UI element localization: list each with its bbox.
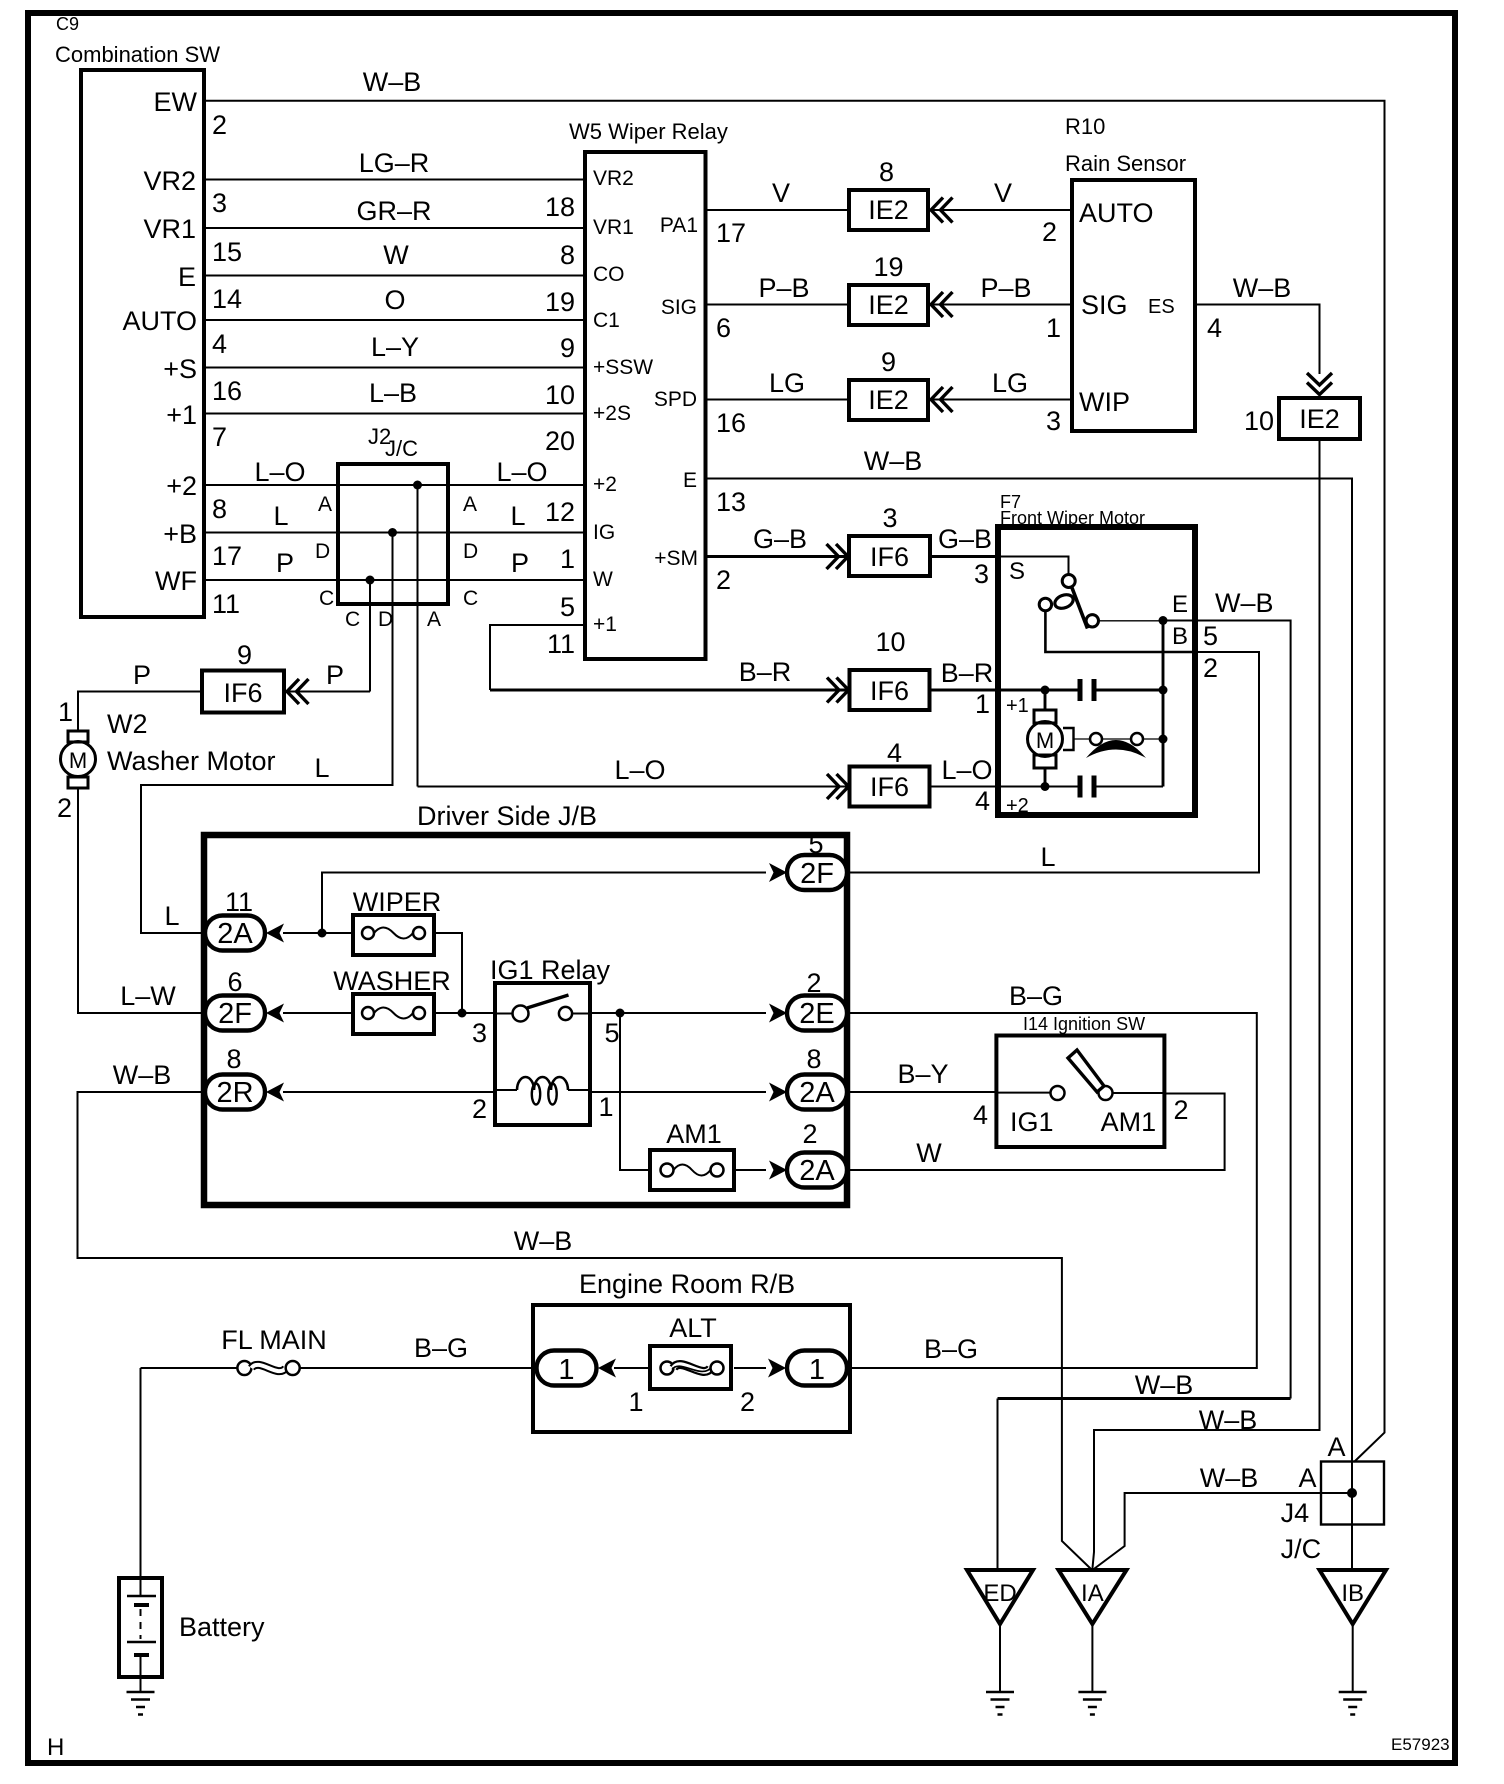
connector IE2 (9) [849, 347, 928, 420]
svg-text:IG1 Relay: IG1 Relay [490, 955, 611, 985]
wire P from J2-C to IF6(9) [284, 691, 370, 693]
svg-text:3: 3 [472, 1018, 487, 1048]
wire between brush contacts [1102, 738, 1131, 740]
brush contact circle right [1131, 733, 1143, 745]
wire +2 cap to E vertical [1094, 786, 1163, 788]
svg-text:SIG: SIG [661, 296, 697, 319]
node +2 motor junction [1041, 782, 1050, 791]
switch contact B-side (F7) [1086, 615, 1098, 627]
svg-text:E: E [178, 262, 196, 292]
ground triangle ED [967, 1570, 1033, 1624]
wire O AUTO-C1 [204, 319, 585, 321]
svg-text:W: W [916, 1138, 942, 1168]
svg-text:W–B: W–B [1215, 588, 1274, 618]
motor M (F7) [1028, 710, 1063, 768]
wire L-Y +S-+SSW [204, 367, 585, 369]
svg-text:1: 1 [598, 1092, 613, 1122]
svg-text:IE2: IE2 [1299, 404, 1340, 434]
svg-text:20: 20 [545, 426, 575, 456]
arrow into 1 (left) [598, 1359, 616, 1378]
relay W5 Wiper Relay [569, 119, 728, 659]
svg-text:D: D [315, 540, 330, 563]
motor F7 Front Wiper Motor [998, 492, 1195, 815]
svg-text:1: 1 [558, 1354, 574, 1386]
ground (ED) [986, 1692, 1014, 1715]
svg-text:W–B: W–B [113, 1060, 172, 1090]
wire L-B +1-+2S [204, 413, 585, 415]
svg-text:B–G: B–G [414, 1333, 468, 1363]
svg-text:W–B: W–B [1135, 1370, 1194, 1400]
svg-text:14: 14 [212, 284, 242, 314]
svg-text:18: 18 [545, 192, 575, 222]
capacitor +1 (F7) [1080, 679, 1094, 701]
svg-text:10: 10 [545, 380, 575, 410]
svg-text:V: V [994, 178, 1012, 208]
svg-text:9: 9 [237, 640, 252, 670]
svg-text:+1: +1 [593, 613, 617, 636]
svg-text:IE2: IE2 [868, 290, 909, 320]
wire LG SPD to IE2(9) [706, 399, 850, 401]
svg-text:E57923: E57923 [1391, 1735, 1450, 1754]
svg-text:10: 10 [1244, 406, 1274, 436]
chevron into IF6(9) [287, 679, 309, 704]
svg-text:C1: C1 [593, 309, 620, 332]
relay block Engine Room R/B [533, 1269, 850, 1432]
wire P-B SIG to IE2(19) [706, 304, 850, 306]
svg-text:+2S: +2S [593, 402, 631, 425]
connector 2F (5) [787, 829, 847, 890]
svg-text:A: A [463, 493, 477, 516]
svg-text:P–B: P–B [758, 273, 809, 303]
connector C9 Combination SW [55, 14, 220, 617]
chevron into IF6(3) [827, 544, 849, 569]
svg-text:2: 2 [802, 1119, 817, 1149]
fuse WASHER [333, 966, 451, 1034]
wire AM1 to 2A(2) [734, 1169, 766, 1171]
svg-text:+1: +1 [166, 400, 197, 430]
svg-text:W–B: W–B [1200, 1463, 1259, 1493]
wire W-B from EW to J4 (right side drop) [204, 101, 1385, 1462]
wire B-R W5 +1(11) to IF6(10) [490, 625, 585, 690]
svg-text:L: L [510, 501, 525, 531]
wire ALT to 1 (right) [734, 1367, 766, 1369]
fuse WIPER [353, 887, 442, 955]
svg-text:IF6: IF6 [870, 772, 909, 802]
fuse AM1 [650, 1119, 734, 1190]
svg-text:L–O: L–O [614, 755, 665, 785]
chevron into IE2(9) [931, 387, 953, 412]
svg-text:C9: C9 [56, 14, 79, 34]
wire 2F(6) to WASHER fuse [283, 1012, 353, 1014]
svg-text:7: 7 [212, 422, 227, 452]
ground (IA) [1078, 1692, 1106, 1715]
battery [119, 1578, 265, 1677]
wire GR-R VR1 [204, 227, 585, 229]
svg-text:B–R: B–R [739, 657, 792, 687]
svg-text:+1: +1 [1006, 695, 1029, 717]
wire coil pin1 to 2A(8) [590, 1091, 766, 1093]
svg-text:2A: 2A [799, 1077, 835, 1109]
wire 1(left) to ALT fuse [614, 1367, 650, 1369]
svg-text:19: 19 [545, 287, 575, 317]
connector IE2 (10) [1244, 398, 1360, 439]
svg-text:SIG: SIG [1081, 290, 1128, 320]
svg-text:LG: LG [992, 368, 1028, 398]
chevron into IE2(8) [931, 198, 953, 223]
wire IG1 pin5 to 2E [590, 1012, 766, 1014]
node E junction [1159, 616, 1168, 625]
svg-text:FL MAIN: FL MAIN [221, 1325, 327, 1355]
svg-text:8: 8 [226, 1044, 241, 1074]
wire brush to contact [1074, 738, 1091, 740]
svg-text:6: 6 [227, 967, 242, 997]
svg-text:W5 Wiper Relay: W5 Wiper Relay [569, 119, 728, 144]
svg-text:L: L [314, 753, 329, 783]
svg-text:W–B: W–B [1233, 273, 1292, 303]
brush contact circle left [1090, 733, 1102, 745]
svg-text:IB: IB [1341, 1580, 1364, 1607]
svg-text:W–B: W–B [864, 446, 923, 476]
wire W-B rain sensor pin4 to IE2(10) [1195, 305, 1320, 375]
svg-text:Combination SW: Combination SW [55, 42, 220, 67]
node washer junction [458, 1009, 467, 1018]
svg-text:W2: W2 [107, 709, 148, 739]
motor brush bracket [1063, 728, 1074, 750]
svg-text:5: 5 [1203, 621, 1218, 651]
svg-text:A: A [1298, 1463, 1316, 1493]
svg-text:+SSW: +SSW [593, 356, 653, 379]
svg-text:S: S [1009, 558, 1025, 585]
svg-text:4: 4 [975, 786, 990, 816]
connector 2A (11) [205, 887, 265, 951]
ground triangle IB [1320, 1570, 1387, 1624]
node J2-A on +2 wire [413, 481, 422, 490]
svg-text:5: 5 [604, 1018, 619, 1048]
svg-text:IF6: IF6 [223, 678, 262, 708]
svg-text:+S: +S [163, 354, 197, 384]
wire LG-R VR2 [204, 179, 585, 181]
svg-text:3: 3 [882, 503, 897, 533]
svg-text:J/C: J/C [1281, 1534, 1322, 1564]
motor W2 Washer Motor [61, 709, 276, 788]
wire G-B to front wiper motor S [930, 555, 998, 558]
svg-text:19: 19 [873, 252, 903, 282]
svg-text:O: O [384, 285, 405, 315]
connector IE2 (8) [849, 157, 928, 230]
svg-text:2R: 2R [216, 1077, 253, 1109]
svg-text:15: 15 [212, 237, 242, 267]
svg-text:12: 12 [545, 497, 575, 527]
svg-text:B–R: B–R [941, 658, 994, 688]
wire WIPER fuse down to washer row [434, 933, 462, 1013]
svg-text:1: 1 [58, 697, 73, 727]
arrow into 2A(8) [769, 1083, 787, 1102]
svg-text:2: 2 [1173, 1095, 1188, 1125]
svg-text:EW: EW [154, 87, 198, 117]
svg-text:2A: 2A [217, 918, 253, 950]
wire B row from park contact [1045, 611, 1195, 653]
connector IE2 (19) [849, 252, 928, 325]
svg-text:+2: +2 [1006, 795, 1029, 817]
node +1 cap junction [1159, 686, 1168, 695]
wire W E-CO [204, 275, 585, 277]
wire W 2A(2) to ignition SW AM1 [847, 1094, 1225, 1171]
svg-text:M: M [69, 748, 87, 773]
svg-text:ES: ES [1148, 296, 1175, 318]
svg-text:IE2: IE2 [868, 385, 909, 415]
svg-text:+2: +2 [166, 471, 197, 501]
chevron down into IE2(10) [1307, 373, 1332, 395]
svg-text:L: L [273, 501, 288, 531]
svg-text:GR–R: GR–R [356, 196, 431, 226]
svg-text:11: 11 [547, 629, 575, 659]
junction connector J4 J/C [1281, 1462, 1384, 1565]
junction connector J2 J/C [338, 424, 448, 604]
svg-text:P: P [326, 660, 344, 690]
svg-text:E: E [1172, 591, 1188, 618]
wire LG from rain sensor WIP [928, 399, 1072, 401]
wire V from rain sensor AUTO [928, 209, 1072, 211]
wire P WF-W through J2 [204, 579, 585, 581]
svg-text:LG–R: LG–R [359, 148, 430, 178]
svg-text:M: M [1036, 728, 1054, 753]
svg-text:PA1: PA1 [660, 214, 698, 237]
svg-text:+2: +2 [593, 473, 617, 496]
svg-text:11: 11 [225, 887, 253, 917]
wire L from F7 B to 2F(5) [847, 652, 1259, 873]
svg-text:1: 1 [1046, 313, 1061, 343]
wire battery to ground [140, 1677, 142, 1692]
svg-text:+B: +B [163, 519, 197, 549]
switch cam follower (F7) [1053, 592, 1075, 611]
svg-text:1: 1 [809, 1354, 825, 1386]
svg-text:6: 6 [716, 313, 731, 343]
switch arm (F7) [1072, 587, 1088, 629]
wire G-B +SM to IF6(3) [706, 555, 850, 558]
svg-text:17: 17 [716, 218, 746, 248]
svg-text:D: D [378, 608, 393, 631]
ground triangle IA [1059, 1570, 1127, 1624]
svg-text:W–B: W–B [1199, 1405, 1258, 1435]
svg-text:Battery: Battery [179, 1612, 265, 1642]
node +1 motor junction [1041, 686, 1050, 695]
wire J2-C drop to P row [369, 580, 371, 692]
svg-text:J/C: J/C [385, 436, 418, 461]
svg-text:4: 4 [1207, 313, 1222, 343]
svg-text:C: C [319, 587, 334, 610]
wire 2A(11) to WIPER fuse [283, 932, 353, 934]
svg-text:E: E [683, 469, 697, 492]
svg-text:L: L [164, 901, 179, 931]
svg-text:IG1: IG1 [1010, 1107, 1054, 1137]
svg-text:11: 11 [212, 589, 240, 619]
svg-text:B–G: B–G [1009, 981, 1063, 1011]
svg-text:J4: J4 [1281, 1498, 1310, 1528]
svg-text:WASHER: WASHER [333, 966, 451, 996]
svg-text:Engine Room R/B: Engine Room R/B [579, 1269, 795, 1299]
svg-text:CO: CO [593, 263, 625, 286]
wire B-Y 2A(8) to ignition SW IG1 [847, 1091, 996, 1093]
chevron into IF6(10) [827, 678, 849, 703]
node brush junction [1159, 735, 1168, 744]
wire V PA1 to IE2(8) [706, 209, 850, 211]
svg-text:10: 10 [875, 627, 905, 657]
svg-text:G–B: G–B [938, 524, 992, 554]
svg-text:W–B: W–B [363, 67, 422, 97]
svg-text:Rain Sensor: Rain Sensor [1065, 151, 1186, 176]
wire WASHER fuse to IG1 relay pin3 [434, 1012, 495, 1014]
svg-text:L–O: L–O [496, 457, 547, 487]
svg-text:B: B [1172, 623, 1188, 650]
connector 2A (2) [787, 1119, 847, 1188]
svg-text:W: W [593, 568, 613, 591]
wire +1 cap to E vertical [1094, 689, 1163, 692]
wire E row inside F7 [1099, 620, 1164, 622]
svg-text:P–B: P–B [980, 273, 1031, 303]
wire L-W washer motor to 2F(6) [78, 788, 205, 1013]
svg-text:A: A [318, 493, 332, 516]
node J4 dot [1347, 1488, 1357, 1498]
arrow into 2A(11) [266, 924, 284, 943]
capacitor +2 (F7) [1080, 776, 1094, 798]
svg-text:L–Y: L–Y [371, 332, 419, 362]
node wiper junction [318, 929, 327, 938]
svg-text:8: 8 [560, 240, 575, 270]
chevron into IE2(19) [931, 292, 953, 317]
svg-text:WF: WF [155, 566, 197, 596]
connector 2E (2) [787, 968, 847, 1031]
node pin5 junction [616, 1009, 625, 1018]
connector IF6 (9) washer [202, 640, 284, 713]
svg-text:2: 2 [740, 1387, 755, 1417]
svg-text:+SM: +SM [654, 547, 698, 570]
node J2-C on WF wire [366, 576, 375, 585]
wire J2-A drop to L-O row [417, 485, 419, 787]
ground (IB) [1339, 1692, 1367, 1715]
fusible link FL MAIN [141, 1325, 537, 1375]
arrow into 2F(6) [266, 1004, 284, 1023]
svg-text:AUTO: AUTO [122, 306, 197, 336]
svg-text:L–O: L–O [254, 457, 305, 487]
svg-text:3: 3 [1046, 406, 1061, 436]
wire W-B 2R(8) to IA ground [78, 1092, 1091, 1569]
svg-text:VR1: VR1 [143, 214, 196, 244]
wire L-O +2-+2 through J2 [204, 484, 585, 486]
wire junction up to 2F(5) [322, 873, 766, 934]
wire L-O J2-A to IF6(4) [418, 786, 850, 788]
svg-text:L–W: L–W [120, 981, 176, 1011]
svg-text:2: 2 [1203, 653, 1218, 683]
svg-text:2: 2 [1042, 217, 1057, 247]
wire P from IF6(9) to washer motor [78, 692, 202, 732]
svg-text:2: 2 [716, 565, 731, 595]
svg-text:2: 2 [57, 793, 72, 823]
svg-text:B–G: B–G [924, 1334, 978, 1364]
wire W-B from F7 E down to ED [1195, 621, 1291, 1399]
svg-text:13: 13 [716, 487, 746, 517]
svg-text:Driver Side J/B: Driver Side J/B [417, 801, 597, 831]
connector 2F (6) [205, 967, 265, 1031]
svg-text:8: 8 [806, 1044, 821, 1074]
svg-text:ED: ED [983, 1580, 1016, 1607]
connector 2R (8) [205, 1044, 265, 1110]
svg-text:A: A [1327, 1432, 1345, 1462]
wire B-G 2E to engine room R/B [847, 1013, 1257, 1368]
svg-text:D: D [463, 540, 478, 563]
svg-text:VR2: VR2 [143, 166, 196, 196]
svg-text:16: 16 [716, 408, 746, 438]
fuse ALT [650, 1313, 731, 1389]
svg-text:2: 2 [212, 110, 227, 140]
wire battery to FL MAIN [140, 1368, 142, 1578]
svg-text:P: P [276, 548, 294, 578]
svg-text:1: 1 [628, 1387, 643, 1417]
svg-text:2A: 2A [799, 1155, 835, 1187]
wire W-B W5 E(13) down to J4 and IB [706, 479, 1353, 1571]
arrow into 2A(2) [769, 1161, 787, 1180]
svg-text:B–Y: B–Y [897, 1059, 948, 1089]
wire B-R to F7 +1 [930, 689, 1081, 692]
wire 2R(8) to IG1 coil pin2 [283, 1091, 495, 1093]
svg-text:16: 16 [212, 376, 242, 406]
svg-text:P: P [133, 660, 151, 690]
switch I14 Ignition SW [996, 1014, 1164, 1147]
svg-text:2F: 2F [218, 998, 252, 1030]
wire motor top lead [1044, 690, 1047, 710]
svg-text:9: 9 [560, 333, 575, 363]
svg-text:8: 8 [212, 494, 227, 524]
chevron into IF6(4) [827, 774, 849, 799]
wire W-B F7-E to ED ground [998, 1397, 1291, 1400]
svg-text:IG: IG [593, 521, 615, 544]
svg-text:L–B: L–B [369, 378, 417, 408]
wire ED to ground [999, 1624, 1001, 1692]
svg-text:1: 1 [560, 544, 575, 574]
wire W-B J4 to IA [1095, 1493, 1353, 1569]
sensor R10 Rain Sensor [1065, 114, 1195, 431]
svg-text:AUTO: AUTO [1079, 198, 1154, 228]
svg-text:W: W [383, 240, 409, 270]
svg-text:A: A [427, 608, 441, 631]
svg-text:1: 1 [975, 689, 990, 719]
svg-text:I14 Ignition SW: I14 Ignition SW [1023, 1014, 1145, 1034]
svg-text:3: 3 [974, 559, 989, 589]
svg-text:WIP: WIP [1079, 387, 1130, 417]
wire L +B-IG through J2 [204, 532, 585, 534]
arrow into 2E [769, 1004, 787, 1023]
svg-text:IA: IA [1081, 1580, 1104, 1607]
svg-text:3: 3 [212, 188, 227, 218]
ground (battery) [127, 1692, 155, 1715]
commutator crescent (F7) [1086, 740, 1146, 758]
switch park contact (F7) [1039, 598, 1051, 610]
wire motor bottom lead [1044, 768, 1047, 787]
connector IF6 (4) [850, 738, 930, 807]
svg-text:VR2: VR2 [593, 167, 634, 190]
svg-text:IF6: IF6 [870, 542, 909, 572]
svg-text:V: V [772, 178, 790, 208]
svg-text:VR1: VR1 [593, 216, 634, 239]
svg-text:G–B: G–B [753, 524, 807, 554]
connector IF6 (3) [849, 503, 930, 576]
relay IG1 [490, 955, 611, 1125]
svg-text:17: 17 [212, 541, 242, 571]
wire P-B from rain sensor SIG [928, 304, 1072, 306]
connector 2A (8) [787, 1044, 847, 1110]
svg-text:ALT: ALT [669, 1313, 717, 1343]
svg-text:L–O: L–O [941, 755, 992, 785]
svg-text:R10: R10 [1065, 114, 1105, 139]
